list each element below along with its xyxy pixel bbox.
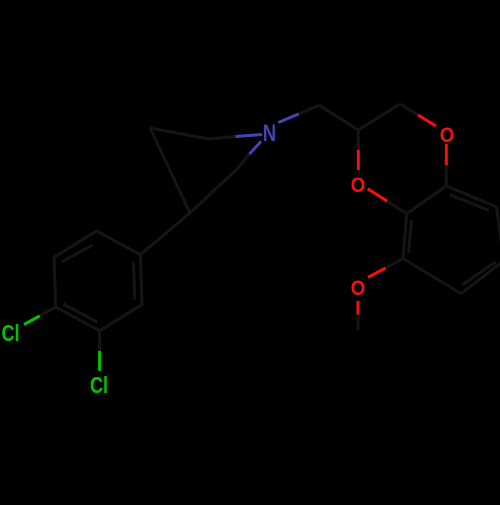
bond C8-OMe red half	[368, 268, 386, 277]
bond N-CH2a dark half	[299, 105, 320, 114]
bond C2diox-O1 dark half	[357, 130, 360, 150]
bond C5-C2 cage	[150, 128, 209, 139]
bond OMe-CH3 dark half	[357, 315, 360, 331]
svg-text:O: O	[440, 123, 455, 147]
bond CH2a-C2diox	[319, 105, 358, 130]
svg-text:N: N	[263, 120, 276, 147]
bond ring-Cl lower green half	[98, 351, 101, 371]
svg-text:Cl: Cl	[90, 372, 108, 398]
svg-text:Cl: Cl	[2, 320, 20, 346]
bond C2-N dark half	[209, 137, 236, 140]
svg-text:O: O	[351, 173, 366, 197]
bond C1-C4 cage	[190, 169, 237, 213]
bond O1-C8a red half	[368, 189, 388, 201]
benzene ring B outer edges	[403, 186, 500, 294]
ring B fused edge	[407, 186, 447, 214]
bond C3diox-O4 red half	[418, 115, 436, 126]
bond O4-C4a red half	[445, 144, 448, 165]
bond C4-N blue half	[250, 141, 262, 154]
bond C8-OMe dark half	[386, 259, 404, 268]
bond C1-phenyl	[140, 213, 190, 255]
bond C3diox-O4 dark half	[400, 104, 418, 115]
bond N-CH2a blue half	[278, 114, 299, 123]
svg-text:O: O	[351, 276, 366, 300]
bond O1-C8a dark half	[387, 201, 407, 213]
bond OMe-CH3 red half	[357, 301, 360, 315]
bond C2diox-O1 red half	[357, 150, 360, 170]
bond ring-Cl left green half	[24, 316, 40, 325]
ring B inner aromatic lines	[450, 195, 490, 211]
bond C5-C1 cage	[150, 128, 190, 213]
wire: benzene ring A (dichlorophenyl) outer edges	[54, 231, 142, 331]
bond ring-Cl lower dark half	[98, 331, 101, 351]
bond C2diox-C3diox	[358, 104, 400, 130]
bond ring-Cl left dark half	[40, 307, 56, 316]
ring A inner aromatic lines	[134, 262, 135, 299]
bond C4-N dark half	[237, 154, 250, 169]
bond O4-C4a dark half	[445, 165, 448, 186]
bond C2-N blue half	[236, 135, 263, 137]
